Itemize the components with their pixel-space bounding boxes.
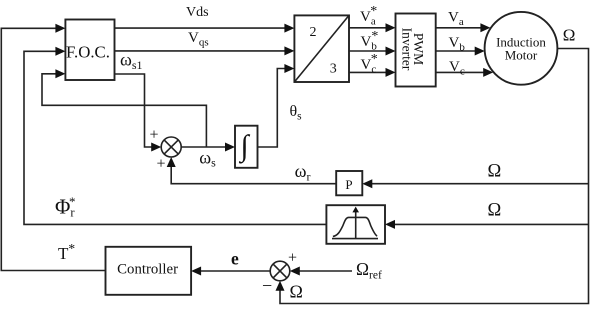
block 2/3 transform bbox=[294, 15, 349, 82]
svg-text:e: e bbox=[231, 248, 239, 268]
block flux-weakening bbox=[326, 205, 385, 244]
wire Vb* bbox=[349, 47, 396, 56]
svg-text:Vc: Vc bbox=[449, 59, 465, 78]
wire omega-s1 bbox=[115, 74, 162, 152]
wire Va bbox=[436, 23, 491, 32]
wire speed to flux-weakening bbox=[385, 220, 589, 229]
svg-text:+: + bbox=[288, 250, 297, 267]
svg-text:Va: Va bbox=[448, 9, 464, 28]
wire omega-s feedback bbox=[42, 69, 206, 147]
svg-text:ωr: ωr bbox=[295, 161, 311, 183]
svg-text:+: + bbox=[150, 127, 159, 144]
svg-text:∫: ∫ bbox=[238, 130, 250, 165]
svg-text:Vqs: Vqs bbox=[188, 30, 209, 49]
block integrator bbox=[235, 126, 258, 168]
wire omega-r to S1 bbox=[167, 157, 337, 184]
svg-text:Vc*: Vc* bbox=[361, 52, 378, 76]
wire T* feedback bbox=[1, 24, 105, 271]
wire motor speed output bbox=[276, 49, 589, 304]
svg-text:Ωref: Ωref bbox=[356, 259, 382, 282]
svg-text:ωs1: ωs1 bbox=[120, 50, 143, 73]
block Controller bbox=[106, 247, 192, 295]
wire Vb bbox=[436, 47, 485, 56]
wire Vc* bbox=[349, 68, 396, 77]
svg-text:θs: θs bbox=[290, 103, 303, 123]
wire Va* bbox=[349, 23, 396, 32]
wire Vds bbox=[115, 24, 295, 33]
svg-text:P: P bbox=[345, 177, 352, 192]
svg-text:Motor: Motor bbox=[505, 48, 538, 63]
wire Vc bbox=[436, 68, 494, 77]
svg-text:Φr*: Φr* bbox=[55, 194, 76, 220]
summing junction S2 bbox=[270, 261, 290, 281]
svg-text:ωs: ωs bbox=[199, 147, 216, 169]
svg-text:Vb: Vb bbox=[449, 35, 466, 54]
svg-text:F.O.C.: F.O.C. bbox=[66, 43, 110, 62]
wire omega-s to integrator bbox=[181, 143, 235, 152]
svg-text:Vb*: Vb* bbox=[361, 29, 379, 53]
svg-text:T*: T* bbox=[58, 241, 75, 263]
wire speed to P bbox=[362, 179, 588, 188]
svg-text:Ω: Ω bbox=[488, 201, 502, 221]
wire flux reference bbox=[24, 47, 326, 225]
svg-text:Ω: Ω bbox=[563, 26, 576, 45]
block PWM Inverter bbox=[396, 14, 436, 87]
svg-text:+: + bbox=[157, 156, 166, 173]
svg-text:−: − bbox=[262, 276, 272, 296]
wire error to controller bbox=[191, 267, 270, 276]
svg-text:Vds: Vds bbox=[186, 5, 209, 20]
summing junction S1 bbox=[161, 137, 181, 157]
svg-text:Va*: Va* bbox=[360, 4, 377, 28]
svg-text:2: 2 bbox=[310, 25, 317, 40]
block Induction Motor bbox=[485, 12, 558, 85]
wire theta-s bbox=[258, 64, 295, 147]
svg-text:3: 3 bbox=[330, 62, 337, 77]
svg-text:Controller: Controller bbox=[117, 262, 178, 278]
wire speed reference bbox=[290, 267, 352, 276]
wire Vqs bbox=[115, 46, 295, 55]
svg-text:PWMInverter: PWMInverter bbox=[400, 28, 427, 71]
svg-text:Ω: Ω bbox=[290, 282, 303, 302]
svg-text:Ω: Ω bbox=[488, 162, 502, 182]
block P bbox=[336, 171, 362, 195]
block F.O.C. bbox=[65, 20, 114, 81]
